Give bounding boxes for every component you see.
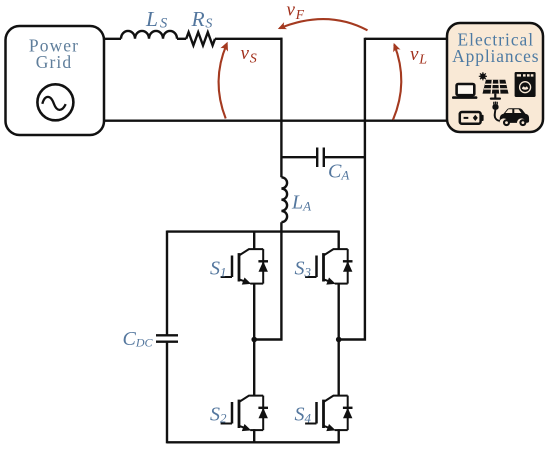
- right leg wire between S3 and S4: [338, 284, 340, 396]
- capacitor CA branch left wire: [281, 156, 317, 158]
- wire vertical right down to right leg midpoint: [339, 38, 365, 340]
- wire RS to corner: [215, 38, 283, 40]
- svg-text:CDC: CDC: [123, 328, 154, 350]
- resistor RS: [186, 32, 215, 45]
- node left leg midpoint: [251, 337, 257, 343]
- icon washing machine: [515, 72, 536, 97]
- transistor S1 (IGBT with diode): [221, 249, 268, 285]
- svg-text:RS: RS: [191, 7, 214, 32]
- svg-text:S1: S1: [210, 258, 227, 280]
- left leg collector wire S1: [253, 231, 255, 250]
- wire top rail left: [104, 38, 121, 40]
- left leg wire between S1 and S2: [253, 284, 255, 396]
- wire between LS and RS: [177, 38, 186, 40]
- svg-text:Appliances: Appliances: [452, 46, 539, 66]
- voltage arrow vF: [278, 19, 368, 30]
- left leg wire below S2: [253, 429, 255, 443]
- capacitor CA plates: [317, 148, 324, 168]
- power grid box: [6, 26, 105, 135]
- icon battery: [460, 112, 484, 124]
- svg-text:LA: LA: [291, 192, 311, 214]
- bridge top rail: [167, 230, 339, 232]
- voltage arrow vS: [219, 42, 228, 119]
- DC-link left wire upper: [166, 231, 168, 336]
- svg-text:S4: S4: [295, 404, 312, 426]
- svg-text:S3: S3: [295, 258, 312, 280]
- node right leg midpoint: [336, 337, 342, 343]
- bridge bottom rail: [167, 441, 339, 443]
- capacitor CDC plates: [156, 335, 178, 341]
- voltage arrow vL: [393, 43, 401, 120]
- wire bottom rail: [104, 119, 448, 121]
- wire top rail right: [365, 38, 448, 40]
- svg-text:vF: vF: [287, 0, 305, 22]
- svg-text:Grid: Grid: [36, 52, 72, 72]
- inductor LS: [121, 31, 177, 39]
- inductor LA: [281, 177, 287, 222]
- transistor S4 (IGBT with diode): [305, 396, 352, 432]
- electrical appliances box: [447, 23, 543, 132]
- svg-text:CA: CA: [328, 161, 349, 183]
- svg-text:vL: vL: [410, 44, 428, 68]
- transistor S2 (IGBT with diode): [221, 396, 268, 432]
- right leg wire below S4: [338, 429, 340, 443]
- transistor S3 (IGBT with diode): [305, 249, 352, 285]
- icon sun: [479, 72, 487, 80]
- right leg collector wire S3: [338, 231, 340, 250]
- svg-text:LS: LS: [145, 7, 169, 32]
- icon solar panel: [483, 80, 509, 100]
- icon electric car with plug: [492, 102, 529, 127]
- icon laptop: [452, 84, 477, 99]
- svg-text:vS: vS: [241, 43, 258, 67]
- wire vertical from series branch down to inverter (node with LA): [280, 38, 282, 178]
- wire LA down to left leg midpoint: [254, 222, 281, 339]
- capacitor CA branch right wire: [324, 156, 365, 158]
- DC-link left wire lower: [166, 342, 168, 444]
- AC source: [37, 84, 73, 120]
- svg-text:S2: S2: [210, 404, 227, 426]
